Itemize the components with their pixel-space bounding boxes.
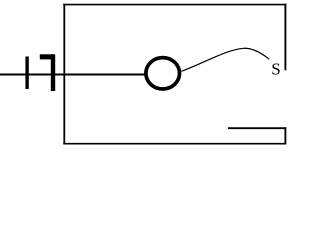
svg-text:S: S bbox=[271, 59, 280, 78]
